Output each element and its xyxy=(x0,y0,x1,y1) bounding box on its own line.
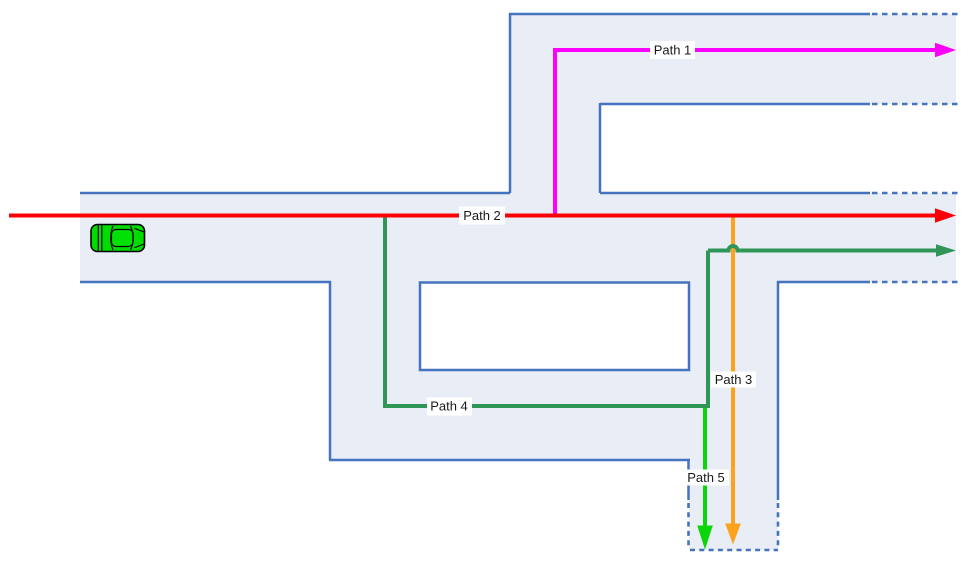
svg-text:Path 5: Path 5 xyxy=(687,470,725,485)
road edge: middle road bottom-left boundary xyxy=(80,281,331,284)
road edge: corridor left boundary (solid stub) xyxy=(687,459,690,500)
road edge: left boundary of top vertical road xyxy=(509,13,512,193)
road edge: middle road bottom-right boundary (solid) xyxy=(777,281,870,284)
path 2 (red) arrowhead xyxy=(935,208,956,223)
path 3 (orange) arrowhead xyxy=(725,524,741,545)
road edge: island1 bottom boundary (solid) xyxy=(600,192,870,195)
path 2 (red) straight horizontal route xyxy=(9,214,936,218)
path 1 (magenta) arrowhead xyxy=(935,43,956,58)
road fill: lower road horizontal part xyxy=(420,370,689,460)
road fill: top vertical connector road xyxy=(510,104,600,193)
label Path 2 xyxy=(459,207,505,225)
road edge: island1 top boundary (dotted continuation) xyxy=(872,103,958,106)
road fill: bottom exit corridor xyxy=(689,282,778,550)
road edge: corridor right boundary (solid part) xyxy=(777,281,780,500)
road fill: lower road vertical part xyxy=(330,282,420,460)
road edge: lower road bottom boundary xyxy=(329,459,690,462)
label Path 5 xyxy=(684,470,729,486)
road edge: top road upper boundary (solid) xyxy=(509,13,870,16)
path 4 (dark green) from red line down, right, and up with hop over orange xyxy=(385,214,936,406)
road edge: island1 top boundary (solid) xyxy=(600,103,870,106)
road edge: lower road left boundary xyxy=(329,281,332,460)
island: white block between lower road and middle road xyxy=(420,283,689,371)
road fill: middle horizontal road xyxy=(80,193,956,282)
path 5 (bright green) vertical line xyxy=(703,406,707,527)
label Path 3 xyxy=(711,372,756,388)
svg-text:Path 1: Path 1 xyxy=(654,43,692,58)
path 3 (orange) vertical line from red path down the corridor xyxy=(731,215,735,525)
car (green top-view vehicle on middle road) xyxy=(91,225,145,252)
label Path 1 xyxy=(650,41,695,59)
road edge: corridor right boundary (dotted part) xyxy=(777,503,780,549)
road edge: middle road bottom-right boundary (dotted continuation) xyxy=(872,281,958,284)
road fill: top horizontal road xyxy=(510,14,956,104)
road edge: island1 left boundary xyxy=(599,103,602,193)
road edge: corridor left boundary (dotted) xyxy=(687,503,690,549)
road edge: middle road top-left boundary xyxy=(80,192,510,195)
svg-text:Path 2: Path 2 xyxy=(463,208,501,223)
path 5 (bright green) arrowhead xyxy=(697,526,713,550)
path 4 (dark green) arrowhead xyxy=(936,244,956,256)
road edge: corridor bottom boundary (dotted) xyxy=(690,549,778,552)
svg-text:Path 3: Path 3 xyxy=(715,372,753,387)
label Path 4 xyxy=(427,398,472,416)
road edge: island1 bottom boundary (dotted continuation) xyxy=(872,192,958,195)
path 1 (magenta) from red line up and right xyxy=(555,50,936,215)
road edge: top road upper boundary (dotted continuation) xyxy=(872,13,958,16)
svg-text:Path 4: Path 4 xyxy=(430,399,468,414)
